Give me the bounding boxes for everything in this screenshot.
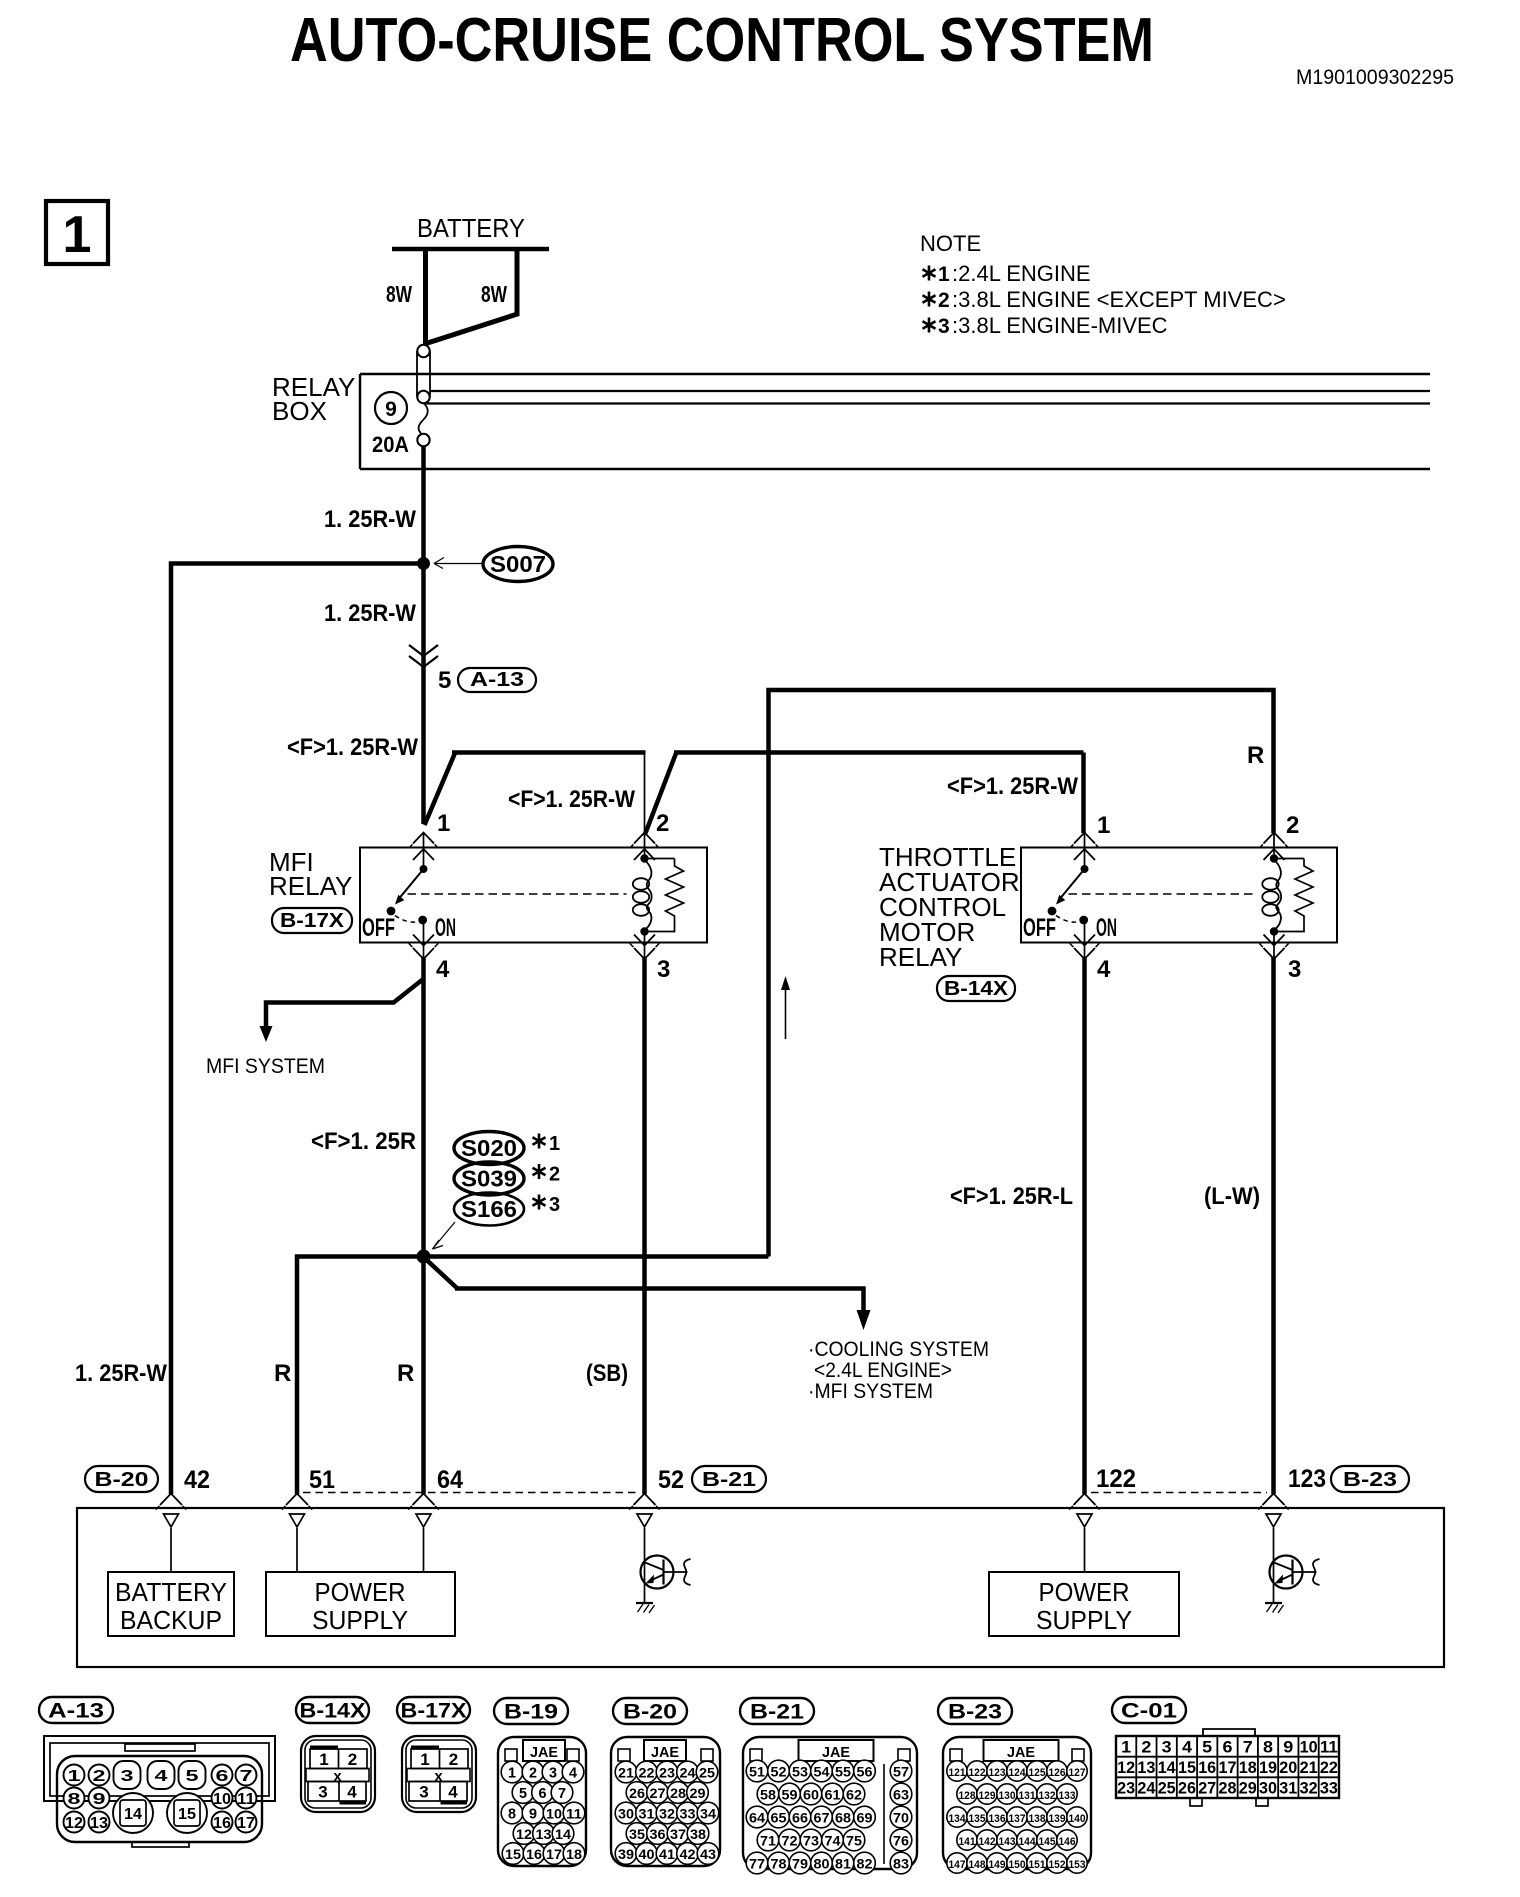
svg-text:B-21: B-21	[750, 1701, 804, 1724]
svg-text:MFI SYSTEM: MFI SYSTEM	[206, 1055, 325, 1078]
svg-text:4: 4	[1182, 1737, 1193, 1756]
battery backup block	[108, 1528, 234, 1636]
svg-text:33: 33	[1320, 1779, 1338, 1798]
document code M1901009302295	[1296, 66, 1454, 89]
svg-text:B-14X: B-14X	[300, 1700, 366, 1723]
svg-text:20A: 20A	[372, 432, 409, 457]
svg-text:151: 151	[1029, 1859, 1046, 1871]
svg-text:77: 77	[749, 1856, 765, 1872]
svg-text:JAE: JAE	[1007, 1744, 1035, 1761]
svg-text:14: 14	[1158, 1758, 1177, 1777]
svg-text:<F>1. 25R-W: <F>1. 25R-W	[947, 773, 1078, 800]
svg-text:42: 42	[680, 1846, 696, 1862]
svg-text:25: 25	[699, 1765, 715, 1781]
svg-text::3.8L ENGINE <EXCEPT MIVEC>: :3.8L ENGINE <EXCEPT MIVEC>	[952, 287, 1286, 312]
svg-text:17: 17	[237, 1815, 255, 1832]
svg-text:4: 4	[347, 1783, 357, 1802]
svg-text:130: 130	[999, 1790, 1016, 1802]
svg-text:153: 153	[1069, 1859, 1086, 1871]
svg-text:36: 36	[650, 1826, 666, 1842]
svg-text:3: 3	[938, 315, 950, 338]
svg-text:81: 81	[835, 1856, 851, 1872]
svg-text:4: 4	[1097, 956, 1111, 983]
svg-text:11: 11	[1320, 1737, 1338, 1756]
svg-text:62: 62	[846, 1787, 862, 1803]
svg-text:79: 79	[792, 1856, 808, 1872]
svg-text:<2.4L ENGINE>: <2.4L ENGINE>	[814, 1359, 952, 1382]
relay MFI B-17X	[269, 810, 707, 983]
svg-text:132: 132	[1039, 1790, 1056, 1802]
svg-text:<F>1. 25R-L: <F>1. 25R-L	[950, 1183, 1073, 1210]
svg-text:3: 3	[419, 1783, 428, 1802]
sheet number box 1	[46, 201, 108, 264]
power supply block right	[989, 1528, 1179, 1636]
svg-text:8W: 8W	[481, 281, 507, 307]
svg-text:BOX: BOX	[272, 396, 327, 426]
svg-text:21: 21	[1300, 1758, 1318, 1777]
svg-text:66: 66	[792, 1810, 808, 1826]
title: AUTO-CRUISE CONTROL SYSTEM	[290, 6, 1154, 75]
svg-text:RELAY: RELAY	[879, 942, 962, 972]
svg-text:1: 1	[938, 263, 950, 286]
svg-text:27: 27	[1198, 1779, 1216, 1798]
svg-text:42: 42	[184, 1466, 210, 1494]
pin 122 label	[1096, 1465, 1136, 1493]
svg-text:9: 9	[529, 1806, 537, 1823]
svg-text:31: 31	[1279, 1779, 1297, 1798]
svg-text:131: 131	[1019, 1790, 1036, 1802]
svg-text:121: 121	[949, 1767, 966, 1779]
connector A-13 pin 5 inline marker	[438, 667, 536, 694]
svg-text:6: 6	[539, 1785, 547, 1802]
svg-text:4: 4	[448, 1783, 458, 1802]
connector B-19 pinout	[494, 1698, 586, 1866]
svg-text:(SB): (SB)	[586, 1360, 628, 1387]
svg-text:152: 152	[1049, 1859, 1066, 1871]
svg-text:<F>1. 25R-W: <F>1. 25R-W	[287, 734, 418, 761]
svg-text:30: 30	[618, 1806, 634, 1822]
svg-text:6: 6	[216, 1768, 229, 1785]
connector row labels B-20 / 42	[85, 1466, 210, 1494]
svg-text:70: 70	[893, 1810, 909, 1826]
svg-text:OFF: OFF	[1023, 914, 1056, 942]
svg-text:B-17X: B-17X	[280, 910, 345, 932]
svg-text:134: 134	[949, 1813, 967, 1825]
svg-text:31: 31	[639, 1806, 655, 1822]
svg-text:128: 128	[959, 1790, 976, 1802]
svg-text:5: 5	[1202, 1737, 1212, 1756]
svg-text:9: 9	[93, 1791, 106, 1808]
svg-text:7: 7	[240, 1768, 253, 1785]
svg-text:3: 3	[1162, 1737, 1172, 1756]
svg-text:S007: S007	[490, 551, 546, 577]
svg-text:16: 16	[213, 1815, 231, 1832]
svg-text:BACKUP: BACKUP	[120, 1605, 222, 1635]
svg-text:55: 55	[835, 1764, 851, 1780]
svg-text:SUPPLY: SUPPLY	[312, 1605, 408, 1635]
connector B-14X pinout	[296, 1697, 375, 1812]
svg-text:57: 57	[893, 1764, 909, 1780]
svg-text:ON: ON	[435, 914, 456, 942]
svg-text:6: 6	[1223, 1737, 1233, 1756]
svg-text:129: 129	[979, 1790, 996, 1802]
svg-text:141: 141	[959, 1836, 976, 1848]
fusible link to relay box	[417, 345, 430, 403]
svg-text:14: 14	[555, 1826, 571, 1842]
wire R splice down to power supply pin 64	[397, 1257, 424, 1495]
svg-text:35: 35	[629, 1826, 645, 1842]
wire branch to cooling system / MFI system	[425, 1258, 990, 1403]
svg-text:63: 63	[893, 1787, 909, 1803]
svg-text:15: 15	[505, 1846, 521, 1862]
svg-text:68: 68	[835, 1810, 851, 1826]
svg-text:52: 52	[658, 1466, 684, 1494]
svg-text:1: 1	[420, 1750, 429, 1769]
svg-text:71: 71	[760, 1833, 776, 1849]
svg-text:POWER: POWER	[315, 1577, 406, 1607]
connector B-21 pinout	[740, 1698, 917, 1874]
svg-text:43: 43	[700, 1846, 716, 1862]
svg-text:S020: S020	[461, 1135, 517, 1161]
connector A-13 pinout	[39, 1697, 275, 1847]
svg-text:56: 56	[857, 1764, 873, 1780]
svg-text:22: 22	[639, 1765, 655, 1781]
svg-text:1: 1	[437, 810, 450, 837]
svg-text:23: 23	[1117, 1779, 1135, 1798]
wire (SB) MFI relay pin 3 to ground pin 52	[586, 957, 645, 1494]
splice node under S166	[417, 1250, 431, 1264]
svg-text:4: 4	[436, 956, 450, 983]
svg-text:122: 122	[969, 1767, 986, 1779]
current direction arrow	[781, 976, 790, 1039]
wire label 1.25R-W below splice	[324, 600, 416, 627]
svg-text:10: 10	[213, 1791, 231, 1808]
svg-text:OFF: OFF	[362, 914, 395, 942]
node S007 splice	[417, 547, 553, 582]
svg-text:R: R	[1247, 742, 1264, 769]
battery	[392, 213, 549, 249]
svg-text:1: 1	[1097, 812, 1110, 839]
wire 1.25R-W to battery backup pin 42	[75, 564, 424, 1495]
svg-text:12: 12	[1117, 1758, 1135, 1777]
svg-text:B-17X: B-17X	[401, 1700, 467, 1723]
svg-text:3: 3	[1288, 956, 1301, 983]
svg-text:B-23: B-23	[1343, 1469, 1397, 1491]
svg-text:65: 65	[771, 1810, 787, 1826]
svg-text:41: 41	[659, 1846, 675, 1862]
svg-text:2: 2	[938, 289, 950, 312]
wire (L-W) throttle relay pin 3 to pin 123	[1204, 957, 1274, 1494]
svg-text:8: 8	[508, 1806, 516, 1823]
svg-text:1. 25R-W: 1. 25R-W	[324, 506, 416, 533]
connector B-17X pinout	[397, 1697, 476, 1812]
svg-text:13: 13	[1137, 1758, 1155, 1777]
svg-text:74: 74	[825, 1833, 841, 1849]
svg-text:32: 32	[659, 1806, 675, 1822]
svg-text:127: 127	[1069, 1767, 1086, 1779]
svg-text:15: 15	[178, 1806, 196, 1823]
svg-text:78: 78	[771, 1856, 787, 1872]
NOTE legend	[920, 231, 1286, 338]
svg-text:1: 1	[1121, 1737, 1131, 1756]
svg-text:11: 11	[566, 1806, 582, 1822]
svg-text:2: 2	[449, 1750, 458, 1769]
svg-text:R: R	[274, 1360, 291, 1387]
relay throttle actuator control motor B-14X	[879, 812, 1337, 1001]
wire diagonal from MFI relay pin 2 to throttle branch	[508, 752, 1084, 833]
svg-text:1. 25R-W: 1. 25R-W	[324, 600, 416, 627]
svg-text:64: 64	[437, 1466, 463, 1494]
svg-text:3: 3	[549, 1765, 557, 1782]
svg-text:138: 138	[1029, 1813, 1046, 1825]
svg-text:73: 73	[803, 1833, 819, 1849]
svg-text:S166: S166	[461, 1196, 517, 1222]
svg-text:JAE: JAE	[651, 1744, 679, 1761]
svg-text:61: 61	[825, 1787, 841, 1803]
svg-text:3: 3	[318, 1783, 327, 1802]
svg-text:·COOLING SYSTEM: ·COOLING SYSTEM	[808, 1338, 989, 1361]
svg-text:122: 122	[1096, 1465, 1136, 1493]
svg-text:8: 8	[68, 1791, 81, 1808]
svg-text:29: 29	[1239, 1779, 1257, 1798]
svg-text:R: R	[397, 1360, 414, 1387]
svg-text:JAE: JAE	[822, 1744, 850, 1761]
svg-text:NOTE: NOTE	[920, 231, 981, 256]
svg-text:x: x	[333, 1768, 342, 1785]
svg-text:38: 38	[690, 1826, 706, 1842]
svg-text:13: 13	[90, 1815, 108, 1832]
svg-text:34: 34	[700, 1806, 716, 1822]
svg-text:5: 5	[438, 667, 451, 694]
splice S039 *2	[454, 1162, 560, 1195]
svg-text:135: 135	[969, 1813, 986, 1825]
svg-text:67: 67	[814, 1810, 830, 1826]
svg-text:(L-W): (L-W)	[1204, 1183, 1260, 1210]
svg-text:143: 143	[999, 1836, 1016, 1848]
svg-text:22: 22	[1320, 1758, 1338, 1777]
svg-text:20: 20	[1279, 1758, 1297, 1777]
svg-text:1: 1	[508, 1765, 516, 1782]
wire 1.25R-W from fuse	[324, 446, 424, 824]
svg-text:<F>1. 25R-W: <F>1. 25R-W	[508, 786, 635, 813]
svg-text:28: 28	[670, 1785, 686, 1801]
wire 8W left battery lead	[386, 249, 426, 346]
wire label <F>1.25R-W left	[287, 734, 418, 761]
connector B-20 pinout	[611, 1698, 720, 1866]
svg-text:8W: 8W	[386, 281, 412, 307]
svg-text:76: 76	[893, 1833, 909, 1849]
svg-text:2: 2	[348, 1750, 357, 1769]
svg-text:C-01: C-01	[1121, 1700, 1177, 1723]
svg-text:AUTO-CRUISE CONTROL SYSTEM: AUTO-CRUISE CONTROL SYSTEM	[290, 6, 1154, 75]
svg-text::3.8L ENGINE-MIVEC: :3.8L ENGINE-MIVEC	[952, 313, 1168, 338]
svg-text:52: 52	[771, 1764, 787, 1780]
svg-text:16: 16	[526, 1846, 542, 1862]
svg-text:123: 123	[1288, 1465, 1326, 1493]
svg-text:1: 1	[549, 1133, 560, 1155]
svg-text:5: 5	[186, 1768, 199, 1785]
pin 64 label	[437, 1466, 463, 1494]
wire MFI relay pin 4 to MFI system arrow	[206, 978, 425, 1078]
control unit box	[77, 1508, 1444, 1667]
svg-text:59: 59	[782, 1787, 798, 1803]
svg-text:2: 2	[529, 1765, 537, 1782]
svg-text:14: 14	[124, 1806, 142, 1823]
svg-text:33: 33	[680, 1806, 696, 1822]
svg-text:x: x	[434, 1768, 443, 1785]
svg-text:149: 149	[989, 1859, 1006, 1871]
svg-text:146: 146	[1059, 1836, 1076, 1848]
svg-text:4: 4	[155, 1768, 168, 1785]
svg-text:<F>1. 25R: <F>1. 25R	[311, 1128, 416, 1155]
svg-text:82: 82	[857, 1856, 873, 1872]
svg-text:28: 28	[1219, 1779, 1237, 1798]
svg-text:23: 23	[659, 1765, 675, 1781]
svg-text:24: 24	[680, 1765, 696, 1781]
svg-text:145: 145	[1039, 1836, 1056, 1848]
svg-text:26: 26	[629, 1785, 645, 1801]
svg-text:13: 13	[536, 1826, 552, 1842]
svg-text:1. 25R-W: 1. 25R-W	[75, 1360, 167, 1387]
svg-text:40: 40	[639, 1846, 655, 1862]
pin 51 label	[309, 1466, 335, 1494]
svg-text:2: 2	[549, 1164, 560, 1186]
svg-text:12: 12	[65, 1815, 83, 1832]
svg-text:15: 15	[1178, 1758, 1196, 1777]
svg-text:75: 75	[846, 1833, 862, 1849]
pin chevrons at control unit	[156, 1494, 1289, 1510]
splice S166 *3	[433, 1193, 561, 1250]
svg-text:3: 3	[121, 1768, 134, 1785]
svg-text:32: 32	[1300, 1779, 1318, 1798]
svg-text:54: 54	[814, 1764, 830, 1780]
svg-text:142: 142	[979, 1836, 996, 1848]
svg-text:27: 27	[650, 1785, 666, 1801]
svg-text:26: 26	[1178, 1779, 1196, 1798]
svg-text:B-20: B-20	[623, 1701, 677, 1724]
svg-text:60: 60	[803, 1787, 819, 1803]
svg-text:7: 7	[1243, 1737, 1253, 1756]
svg-text:83: 83	[893, 1856, 909, 1872]
svg-text:72: 72	[782, 1833, 798, 1849]
svg-text:BATTERY: BATTERY	[417, 213, 525, 243]
svg-text:1: 1	[68, 1768, 81, 1785]
svg-text:A-13: A-13	[48, 1700, 104, 1723]
connector C-01 pinout	[1112, 1697, 1339, 1806]
svg-text:2: 2	[1286, 812, 1299, 839]
wire R riser to throttle relay pin 2	[769, 690, 1274, 1257]
svg-text:147: 147	[949, 1859, 966, 1871]
svg-text:B-14X: B-14X	[944, 978, 1009, 1000]
svg-text:133: 133	[1059, 1790, 1076, 1802]
svg-text:12: 12	[516, 1826, 532, 1842]
svg-text:4: 4	[569, 1765, 578, 1782]
relay box outline	[272, 372, 1430, 469]
svg-text:RELAY: RELAY	[269, 871, 352, 901]
svg-text:17: 17	[546, 1846, 562, 1862]
svg-text:10: 10	[1300, 1737, 1318, 1756]
svg-text:136: 136	[989, 1813, 1006, 1825]
svg-text:JAE: JAE	[530, 1744, 558, 1761]
svg-text:3: 3	[657, 956, 670, 983]
svg-text:51: 51	[309, 1466, 335, 1494]
svg-text:17: 17	[1219, 1758, 1237, 1777]
splice S020 *1	[454, 1132, 560, 1165]
svg-text:B-20: B-20	[95, 1469, 149, 1491]
svg-text:9: 9	[385, 398, 397, 421]
svg-text:39: 39	[618, 1846, 634, 1862]
svg-text::2.4L ENGINE: :2.4L ENGINE	[952, 261, 1091, 286]
svg-text:·MFI SYSTEM: ·MFI SYSTEM	[808, 1380, 933, 1403]
fuse 9 20A	[372, 392, 430, 457]
svg-text:A-13: A-13	[470, 669, 524, 691]
svg-text:148: 148	[969, 1859, 986, 1871]
svg-text:BATTERY: BATTERY	[115, 1577, 227, 1607]
svg-text:69: 69	[857, 1810, 873, 1826]
svg-text:29: 29	[690, 1785, 706, 1801]
svg-text:2: 2	[1141, 1737, 1151, 1756]
svg-text:8: 8	[1263, 1737, 1273, 1756]
wire R splice to riser	[424, 1254, 769, 1259]
svg-text:51: 51	[749, 1764, 765, 1780]
svg-text:11: 11	[237, 1791, 255, 1808]
svg-text:3: 3	[549, 1194, 560, 1216]
svg-text:1: 1	[63, 206, 92, 264]
ECU pin triangles	[164, 1514, 1282, 1527]
svg-text:2: 2	[656, 810, 669, 837]
svg-text:B-19: B-19	[504, 1701, 558, 1724]
connector B-23 pinout	[938, 1698, 1091, 1873]
svg-text:POWER: POWER	[1039, 1577, 1130, 1607]
dashed connector grouping lines	[303, 1492, 1267, 1494]
pin 52 label / connector B-21	[658, 1466, 766, 1494]
svg-text:80: 80	[814, 1856, 830, 1872]
svg-text:M1901009302295: M1901009302295	[1296, 66, 1454, 89]
svg-text:140: 140	[1069, 1813, 1086, 1825]
svg-text:123: 123	[989, 1767, 1006, 1779]
wire R to power supply pin 51	[274, 1257, 424, 1495]
svg-text:150: 150	[1009, 1859, 1026, 1871]
svg-text:25: 25	[1158, 1779, 1176, 1798]
transistor / ground at pin 123	[1265, 1528, 1320, 1613]
svg-text:30: 30	[1259, 1779, 1277, 1798]
transistor / ground at pin 52	[636, 1528, 691, 1613]
svg-text:1: 1	[319, 1750, 328, 1769]
wire 8W right battery lead	[426, 249, 519, 344]
svg-text:126: 126	[1049, 1767, 1066, 1779]
svg-text:37: 37	[670, 1826, 686, 1842]
crossover chevrons on main wire	[409, 645, 438, 667]
pin 123 label / connector B-23	[1288, 1465, 1409, 1493]
svg-text:7: 7	[558, 1785, 566, 1802]
svg-text:53: 53	[792, 1764, 808, 1780]
svg-text:18: 18	[566, 1846, 582, 1862]
svg-text:B-21: B-21	[702, 1469, 756, 1491]
svg-text:24: 24	[1137, 1779, 1156, 1798]
svg-text:124: 124	[1009, 1767, 1027, 1779]
svg-text:137: 137	[1009, 1813, 1026, 1825]
svg-text:139: 139	[1049, 1813, 1066, 1825]
svg-text:2: 2	[93, 1768, 106, 1785]
wire MFI relay pin 4 down to splice	[311, 957, 424, 1257]
svg-text:58: 58	[760, 1787, 776, 1803]
svg-text:SUPPLY: SUPPLY	[1036, 1605, 1132, 1635]
wire diagonal into MFI relay pin 1	[425, 753, 646, 826]
svg-text:125: 125	[1029, 1767, 1046, 1779]
svg-text:9: 9	[1283, 1737, 1293, 1756]
wire drop to MFI relay pin 2	[644, 753, 646, 836]
svg-text:16: 16	[1198, 1758, 1216, 1777]
